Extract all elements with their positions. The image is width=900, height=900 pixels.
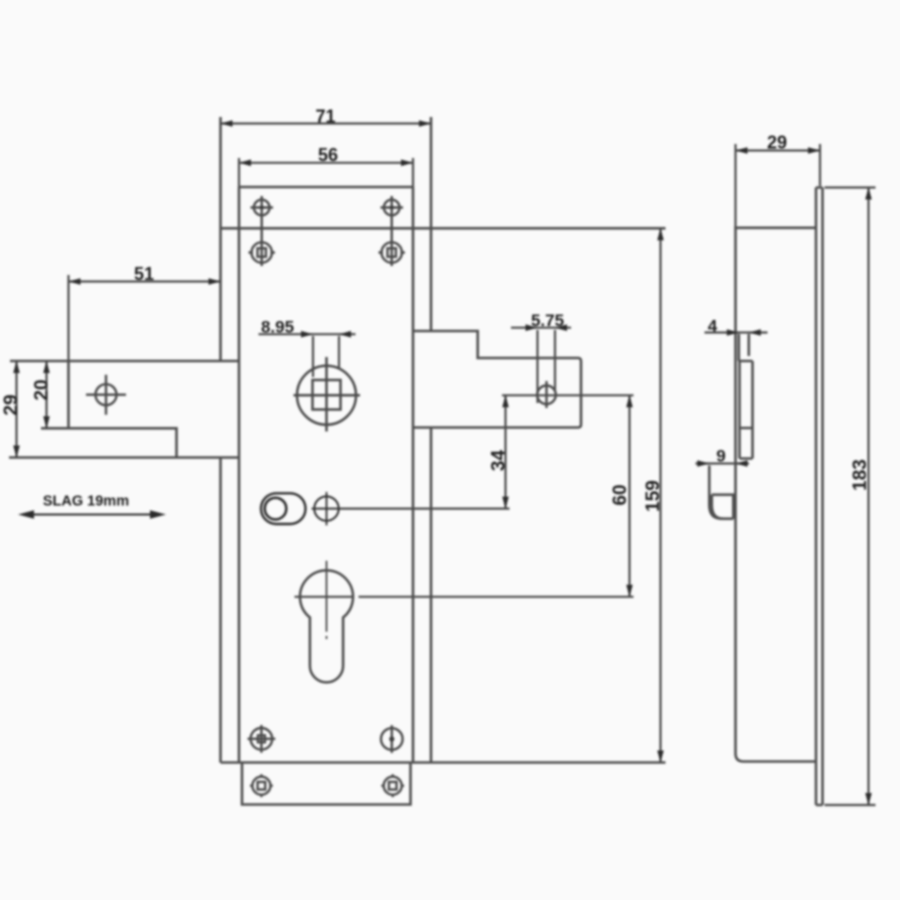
svg-text:SLAG 19mm: SLAG 19mm [43, 494, 129, 510]
svg-text:71: 71 [315, 107, 335, 127]
svg-text:51: 51 [134, 264, 154, 284]
svg-text:4: 4 [708, 317, 718, 336]
svg-text:29: 29 [767, 133, 787, 153]
svg-text:9: 9 [716, 447, 725, 466]
svg-text:183: 183 [850, 459, 871, 491]
svg-text:159: 159 [643, 480, 664, 512]
svg-text:34: 34 [489, 450, 510, 472]
svg-text:5.75: 5.75 [531, 311, 564, 330]
svg-text:60: 60 [610, 484, 631, 505]
svg-text:20: 20 [32, 379, 53, 400]
svg-text:8.95: 8.95 [261, 318, 294, 337]
svg-text:56: 56 [318, 145, 338, 165]
svg-text:29: 29 [1, 394, 22, 415]
